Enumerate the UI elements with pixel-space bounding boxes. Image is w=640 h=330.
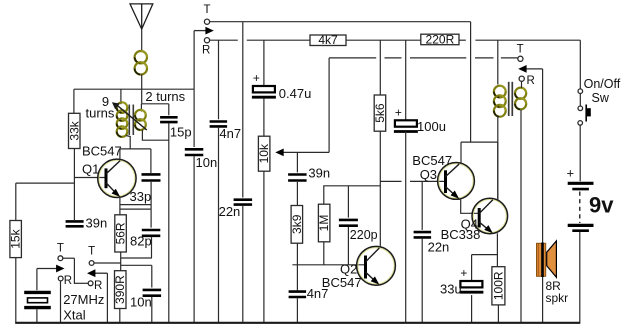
svg-text:22n: 22n bbox=[219, 204, 241, 219]
wire tap down to 15p top bbox=[168, 104, 170, 116]
wire R line segment 5 bbox=[475, 39, 580, 41]
transistor Q2 BC547 bbox=[357, 246, 396, 285]
svg-text:15p: 15p bbox=[170, 124, 192, 139]
wire T1 primary bottom to Q1 collector bbox=[126, 136, 130, 149]
wire xtal bottom to ground rail bbox=[36, 309, 38, 322]
wire Q1 emitter down bbox=[119, 197, 121, 215]
wire Q2 base wire bbox=[292, 264, 365, 266]
speaker 8R bbox=[537, 241, 557, 277]
wire supply to 100u bbox=[405, 40, 407, 120]
transistor Q4 BC338 bbox=[472, 198, 508, 234]
svg-text:+: + bbox=[567, 166, 575, 181]
wire 15k to ground rail bbox=[15, 258, 17, 323]
arrow pole switch C bbox=[194, 27, 214, 35]
crystal X1 27MHz bbox=[24, 292, 51, 307]
svg-text:T: T bbox=[57, 243, 64, 255]
wire R-A to ground rail bbox=[60, 281, 62, 323]
svg-text:82p: 82p bbox=[130, 234, 152, 249]
wire lower rung upper bbox=[121, 257, 152, 259]
inductor T2 secondary bbox=[515, 88, 526, 110]
wire collector node Q3-Q4 bbox=[461, 141, 498, 143]
wire T2 secondary top to R contact bbox=[521, 81, 523, 88]
wire 4n7 TX to ground rail bbox=[218, 128, 220, 323]
svg-text:4n7: 4n7 bbox=[219, 126, 241, 141]
wire emitter rung lower bbox=[120, 208, 151, 210]
capacitor 22n right bbox=[414, 232, 432, 237]
svg-text:+: + bbox=[253, 71, 260, 85]
wire T rail bbox=[210, 21, 471, 23]
wire Q3 emitter to Q4 base bbox=[461, 199, 479, 214]
svg-text:100R: 100R bbox=[491, 271, 505, 300]
resistor 100R bbox=[491, 267, 505, 305]
wire audio line seg3 bbox=[410, 57, 466, 59]
resistor 10k volume bbox=[257, 136, 271, 171]
wire R line segment 3 bbox=[346, 39, 421, 41]
wire lower rung lower bbox=[121, 264, 152, 266]
svg-text:T: T bbox=[203, 4, 210, 16]
wire 100u to ground rail bbox=[405, 132, 407, 323]
wire 1M top node bbox=[324, 186, 381, 204]
wire emitter rung upper bbox=[120, 204, 151, 206]
svg-text:39n: 39n bbox=[308, 166, 330, 181]
wire 22n TX column bbox=[242, 22, 244, 198]
inductor T1 primary 9 turns bbox=[117, 102, 128, 137]
wire switch link bbox=[579, 94, 581, 107]
svg-text:9v: 9v bbox=[589, 193, 614, 218]
capacitor 4n7 Q2 bbox=[289, 292, 307, 297]
wire 39n to 3k9 bbox=[296, 182, 298, 206]
contact T switch A bbox=[58, 256, 63, 261]
wire R line segment 2 bbox=[247, 39, 310, 41]
capacitor 22n TX bbox=[234, 200, 253, 205]
capacitor 82p bbox=[142, 230, 161, 236]
svg-text:spkr: spkr bbox=[546, 291, 569, 305]
contact R switch D bbox=[519, 76, 524, 81]
capacitor 10n bottom bbox=[143, 290, 162, 296]
svg-text:Xtal: Xtal bbox=[63, 308, 86, 323]
battery 9v bbox=[567, 166, 594, 231]
svg-text:R: R bbox=[94, 280, 102, 292]
resistor 33k bbox=[67, 113, 81, 148]
svg-text:Q1: Q1 bbox=[82, 162, 99, 177]
wire 5k6 to Q2 collector bbox=[379, 131, 381, 246]
svg-text:220p: 220p bbox=[350, 228, 378, 242]
wire Q3 collector up bbox=[460, 142, 462, 164]
svg-text:R: R bbox=[202, 44, 210, 56]
wire T-rail drop bbox=[470, 22, 472, 142]
wire base node to 15k bbox=[16, 182, 75, 184]
svg-text:+: + bbox=[395, 105, 402, 119]
wire 82p top bbox=[150, 209, 152, 228]
contact R switch C bbox=[204, 38, 209, 43]
transistor Q1 BC547 bbox=[98, 159, 136, 197]
contact switch middle bbox=[578, 106, 583, 111]
wire 22n right to ground rail bbox=[421, 239, 423, 323]
capacitor 100u electrolytic bbox=[394, 105, 418, 131]
svg-text:BC338: BC338 bbox=[441, 227, 481, 242]
contact switch top bbox=[578, 89, 583, 94]
wire 33p bottom bbox=[150, 182, 152, 209]
wire 33k to Q1 base node bbox=[73, 149, 75, 221]
contact T switch B bbox=[89, 261, 94, 266]
wire R line segment 1 bbox=[210, 39, 238, 41]
wire Q3 base seg1 bbox=[380, 180, 401, 182]
wire R-B to bias line bbox=[74, 282, 88, 284]
wire 390R to ground rail bbox=[119, 309, 121, 323]
wire Q4 collector up bbox=[497, 142, 499, 201]
wire speaker to ground rail bbox=[542, 277, 544, 323]
svg-text:4n7: 4n7 bbox=[307, 286, 329, 301]
capacitor 0.47u electrolytic bbox=[252, 71, 276, 97]
wire 56R bottom to 390R bbox=[120, 252, 122, 271]
wire 0.47u to 10k bbox=[263, 98, 265, 136]
svg-text:On/Off: On/Off bbox=[584, 77, 621, 91]
svg-text:0.47u: 0.47u bbox=[279, 86, 312, 101]
wire T2 primary bottom bbox=[497, 117, 499, 201]
wire pole C down to TX rail bbox=[193, 31, 195, 90]
svg-text:turns: turns bbox=[86, 106, 115, 121]
capacitor 15p bbox=[160, 117, 178, 122]
transformer T2 core bbox=[509, 82, 513, 116]
inductor L1 antenna coil bbox=[135, 51, 147, 75]
resistor 220R bbox=[421, 33, 459, 47]
wire 3k9 to base node bbox=[296, 243, 298, 265]
wire 1M bottom to base wire bbox=[323, 242, 325, 265]
wire 22n TX to ground rail bbox=[242, 206, 244, 323]
capacitor 33p bbox=[142, 174, 161, 180]
wire emitter to 33u bbox=[472, 254, 498, 256]
wire T2 secondary bottom to ground rail bbox=[520, 110, 522, 323]
capacitor 39n left bbox=[66, 221, 84, 226]
wire 10n to ground rail bbox=[151, 297, 153, 323]
wire L1 to tank node bbox=[141, 74, 143, 104]
wire 22n right top bbox=[421, 181, 423, 230]
wire collector node bbox=[120, 148, 151, 150]
wire T1 secondary bottom bbox=[142, 130, 168, 141]
contact R switch B bbox=[88, 281, 93, 286]
wire audio line seg4 bbox=[475, 57, 494, 59]
svg-text:39n: 39n bbox=[86, 216, 108, 231]
wire 33u top bbox=[471, 255, 473, 281]
antenna bbox=[130, 4, 153, 29]
wire 100R to ground rail bbox=[497, 305, 499, 323]
capacitor 39n mid bbox=[288, 175, 307, 181]
svg-text:1M: 1M bbox=[317, 215, 331, 232]
svg-text:5k6: 5k6 bbox=[373, 103, 387, 123]
ground rail bbox=[15, 322, 580, 324]
transistor Q3 BC547 bbox=[438, 163, 475, 200]
svg-text:33u: 33u bbox=[440, 282, 462, 297]
svg-text:390R: 390R bbox=[113, 275, 127, 304]
resistor 1M bbox=[317, 204, 331, 242]
resistor 15k bbox=[9, 221, 23, 258]
svg-text:220R: 220R bbox=[426, 33, 455, 47]
capacitor 220p bbox=[339, 220, 358, 226]
wire wiper up to audio line bbox=[328, 58, 330, 152]
wire R line segment 4 bbox=[459, 39, 466, 41]
svg-text:27MHz: 27MHz bbox=[63, 292, 104, 307]
svg-text:56R: 56R bbox=[114, 222, 128, 244]
wire supply to switch bbox=[579, 40, 581, 89]
wire 15p bottom to ground rail bbox=[168, 123, 170, 322]
resistor 4k7 bbox=[310, 33, 346, 47]
wire rail to 33k bbox=[73, 89, 75, 113]
wire 10n TX column bbox=[193, 89, 195, 147]
contact T switch D bbox=[518, 56, 523, 61]
wire antenna to coil L1 bbox=[141, 29, 143, 51]
svg-text:BC547: BC547 bbox=[82, 144, 122, 159]
contact T switch C bbox=[204, 19, 209, 24]
wire T1 primary top to rail bbox=[120, 89, 122, 104]
wire Q4 emitter down bbox=[496, 233, 498, 266]
wire 82p bottom bbox=[151, 237, 153, 258]
svg-text:10n: 10n bbox=[196, 155, 218, 170]
svg-text:33p: 33p bbox=[130, 189, 152, 204]
wire T-B to 390R node bbox=[94, 262, 121, 264]
wire bias line lower bbox=[73, 258, 75, 284]
svg-text:T: T bbox=[88, 245, 95, 257]
capacitor 4n7 TX bbox=[210, 122, 228, 127]
transformer T1 core bbox=[129, 105, 133, 136]
arrow T1 tuning slug bbox=[112, 102, 147, 130]
capacitor 10n TX bbox=[185, 149, 204, 155]
wire 4n7 Q2 top bbox=[296, 265, 298, 291]
wire 15k top bbox=[15, 183, 17, 220]
wire pole B to ground rail bbox=[106, 273, 108, 322]
wire 220p top bbox=[347, 186, 349, 218]
wire xtal top bbox=[36, 269, 38, 291]
wire audio line seg1 bbox=[329, 57, 376, 59]
wire collector to 33p bbox=[150, 149, 152, 173]
wire wiper tap to 39n bbox=[296, 152, 298, 172]
wire TX rail bbox=[74, 88, 194, 90]
wire supply to T2 primary bbox=[497, 40, 499, 84]
arrow 10k wiper bbox=[275, 149, 329, 157]
wire 4n7 Q2 to ground rail bbox=[296, 298, 298, 322]
svg-text:T: T bbox=[517, 43, 524, 55]
svg-text:R: R bbox=[527, 75, 535, 87]
wire supply to 5k6 bbox=[379, 40, 381, 95]
wire 220p bottom bbox=[347, 227, 349, 265]
wire Q3 base seg2 bbox=[410, 180, 444, 182]
svg-text:10k: 10k bbox=[257, 143, 271, 163]
wire audio line seg2 bbox=[385, 57, 402, 59]
wire tank tap to 15p bbox=[142, 103, 169, 105]
inductor T2 primary bbox=[494, 86, 506, 117]
svg-text:+: + bbox=[460, 266, 467, 280]
arrow pole switch D bbox=[518, 65, 542, 73]
svg-text:33k: 33k bbox=[67, 120, 81, 140]
wire Q1 base bbox=[74, 177, 104, 179]
wire switch to battery bbox=[579, 125, 581, 181]
wire R line to 0.47u bbox=[263, 40, 265, 86]
svg-text:3k9: 3k9 bbox=[290, 214, 304, 234]
arrow pole switch B bbox=[87, 269, 107, 277]
svg-text:2 turns: 2 turns bbox=[145, 89, 185, 104]
svg-text:15k: 15k bbox=[9, 228, 23, 248]
svg-text:R: R bbox=[64, 275, 72, 287]
resistor 56R bbox=[114, 215, 128, 252]
capacitor 33u electrolytic bbox=[459, 266, 483, 292]
wire pole D to speaker bbox=[542, 69, 544, 243]
wire 33u to ground rail bbox=[471, 295, 473, 323]
resistor 5k6 bbox=[373, 95, 387, 131]
wire T1 secondary top to antenna node bbox=[140, 104, 142, 112]
svg-text:Q3: Q3 bbox=[420, 167, 437, 182]
inductor T1 secondary 2 turns bbox=[135, 110, 146, 130]
wire battery to ground rail bbox=[579, 232, 581, 323]
svg-text:Sw: Sw bbox=[592, 91, 610, 105]
svg-text:10n: 10n bbox=[130, 295, 152, 310]
wire 4n7 TX column bbox=[218, 40, 220, 119]
wire Q1 collector up bbox=[119, 149, 121, 160]
svg-text:100u: 100u bbox=[417, 119, 446, 134]
switch button bbox=[586, 105, 591, 122]
resistor 3k9 bbox=[290, 206, 304, 244]
wire 10n TX to ground rail bbox=[193, 156, 195, 322]
wire 10n top bbox=[151, 265, 153, 287]
contact switch bottom bbox=[578, 121, 583, 126]
arrow pole switch A bbox=[37, 265, 65, 273]
svg-text:4k7: 4k7 bbox=[318, 33, 338, 47]
contact R switch A bbox=[58, 276, 63, 281]
wire T-A to bias line bbox=[63, 257, 75, 259]
wire 10k to ground rail bbox=[263, 171, 265, 322]
resistor 390R bbox=[113, 271, 127, 309]
wire audio line seg5 bbox=[501, 57, 518, 59]
